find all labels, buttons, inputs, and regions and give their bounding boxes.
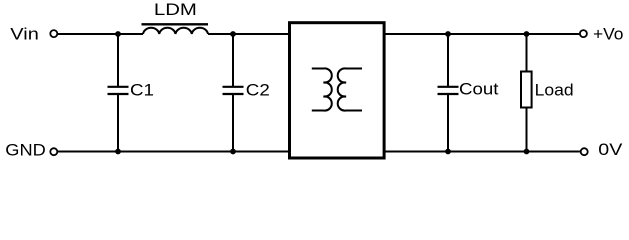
capacitor C1 bottom lead <box>117 94 119 152</box>
junction top of C2 <box>230 31 236 37</box>
svg-text:GND: GND <box>5 141 46 160</box>
resistor Load top lead <box>526 34 528 71</box>
capacitor C2 bottom lead <box>232 94 234 152</box>
svg-text:C1: C1 <box>130 81 154 100</box>
terminal 0V <box>581 148 588 155</box>
junction bottom of C2 <box>230 149 236 155</box>
wire GND to box bottom <box>58 151 289 153</box>
svg-text:Cout: Cout <box>459 79 499 98</box>
svg-text:Load: Load <box>535 81 574 100</box>
junction bottom of Load <box>524 149 530 155</box>
capacitor C2 top lead <box>232 34 234 87</box>
terminal +Vo <box>580 30 587 37</box>
inductor LDM core bar <box>142 23 209 25</box>
svg-text:0V: 0V <box>598 140 623 159</box>
capacitor C1 plates <box>108 86 129 88</box>
inductor LDM winding <box>143 28 208 34</box>
resistor Load body <box>521 72 532 108</box>
svg-text:LDM: LDM <box>154 0 197 19</box>
converter box <box>290 23 385 158</box>
junction top of Cout <box>445 31 451 37</box>
capacitor Cout top lead <box>447 34 449 87</box>
capacitor C1 top lead <box>117 34 119 87</box>
wire LDM to box <box>208 33 289 35</box>
resistor Load bottom lead <box>526 108 528 152</box>
junction bottom of Cout <box>445 149 451 155</box>
svg-text:Vin: Vin <box>10 25 39 44</box>
wire Vin to LDM <box>58 33 143 35</box>
wire box bottom to 0V <box>385 151 580 153</box>
junction bottom of C1 <box>115 149 121 155</box>
terminal Vin <box>50 30 57 37</box>
transformer primary winding <box>312 68 332 110</box>
wire box to +Vo <box>385 33 579 35</box>
terminal GND <box>50 148 57 155</box>
transformer secondary winding <box>338 68 362 110</box>
svg-text:C2: C2 <box>246 81 270 100</box>
capacitor C2 plates <box>223 86 244 88</box>
junction top of C1 <box>115 31 121 37</box>
capacitor Cout bottom lead <box>447 94 449 152</box>
capacitor Cout plates <box>438 86 459 88</box>
junction top of Load <box>524 31 530 37</box>
svg-text:+Vo: +Vo <box>593 25 624 44</box>
